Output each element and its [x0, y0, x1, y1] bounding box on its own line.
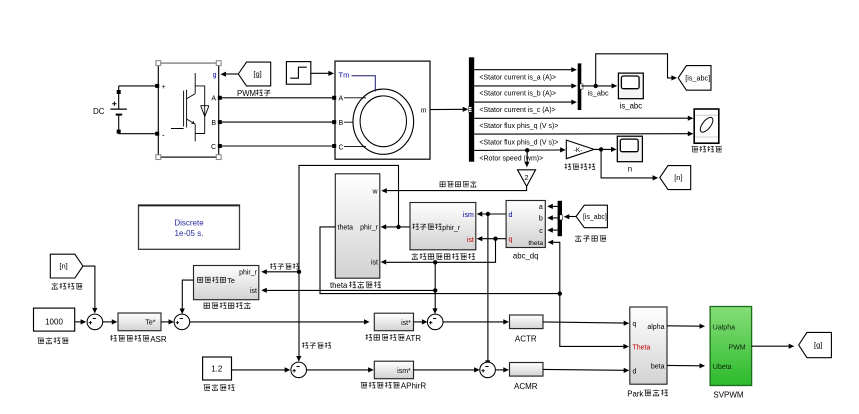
wire q to ist — [481, 238, 506, 240]
svg-text:ist: ist — [250, 288, 257, 295]
wire gain to scope n — [594, 148, 612, 150]
svg-text:-K-: -K- — [574, 147, 583, 154]
block Park inverse transform — [630, 307, 667, 384]
wire gain 2 to w input — [386, 186, 527, 190]
DC voltage source battery — [110, 86, 127, 134]
svg-text:d: d — [633, 368, 637, 375]
svg-text:1000: 1000 — [45, 318, 63, 327]
wire 1.2 to sum3 — [232, 369, 286, 371]
powergui Discrete annotation — [138, 205, 240, 249]
wire d to ism — [481, 213, 506, 215]
svg-text:SVPWM: SVPWM — [713, 391, 744, 400]
svg-text:c: c — [539, 228, 543, 235]
IGBT and diode icon inside inverter — [171, 73, 209, 141]
svg-text:<Rotor speed (wm)>: <Rotor speed (wm)> — [479, 156, 543, 163]
svg-text:C: C — [339, 144, 344, 151]
From tag [g] for gate signal — [238, 62, 270, 86]
label flux observe — [692, 146, 698, 152]
wire mux to scope is_abc — [581, 85, 612, 87]
junction theta — [558, 291, 562, 295]
Goto tag [n] — [660, 166, 691, 190]
wire ATR to sum4 — [414, 321, 424, 323]
svg-text:alpha: alpha — [647, 324, 664, 331]
constant 1000 — [34, 308, 75, 331]
svg-text:B: B — [339, 120, 344, 127]
wire ist to torque calc input — [265, 289, 435, 291]
svg-text:phir_r: phir_r — [360, 225, 379, 232]
wire sum3 to APhirR — [307, 369, 370, 371]
constant 1.2 given flux — [203, 357, 232, 380]
svg-text:ACTR: ACTR — [515, 334, 537, 343]
junction rotor flux to torque calc — [297, 270, 301, 274]
wire ASR to sum2 — [161, 321, 170, 323]
wire junction to Goto is_abc — [596, 54, 673, 86]
wire sum5 to ACMR — [495, 369, 504, 371]
XY flux scope — [694, 109, 719, 143]
svg-text:theta: theta — [338, 225, 354, 232]
label actual speed — [52, 283, 58, 289]
svg-text:theta: theta — [330, 281, 348, 290]
label given flux — [204, 385, 210, 391]
svg-text:Theta: Theta — [633, 345, 651, 352]
wire Park beta to SVPWM Ubeta — [667, 364, 701, 366]
wire From n to sum1 — [83, 266, 95, 309]
wire rotor flux to torque calc phir_r input — [265, 271, 299, 273]
block ASR speed regulator — [118, 313, 161, 331]
wire stator current is_a — [474, 69, 572, 71]
svg-text:APhirR: APhirR — [401, 382, 427, 391]
block ATR torque regulator — [374, 313, 413, 331]
wire phir_r to theta model and junction — [385, 226, 410, 228]
svg-text:Tm: Tm — [339, 71, 350, 80]
svg-text:<Stator current is_b (A)>: <Stator current is_b (A)> — [479, 91, 556, 98]
svg-text:-: - — [162, 131, 165, 140]
block APhirR flux regulator — [374, 361, 413, 379]
block theta calculation model — [335, 174, 380, 278]
svg-text:[g]: [g] — [814, 341, 822, 350]
sum3 flux error — [291, 362, 307, 378]
wire Te output to sum2 — [182, 280, 193, 310]
svg-text:phir_r: phir_r — [442, 225, 461, 232]
svg-text:B: B — [211, 120, 216, 127]
svg-text:<Stator flux phis_d (V s)>: <Stator flux phis_d (V s)> — [479, 139, 558, 146]
block ACTR — [510, 315, 544, 329]
svg-text:d: d — [509, 212, 513, 219]
wire From[g] to inverter g with arrow — [226, 73, 239, 75]
svg-text:is_abc: is_abc — [620, 102, 643, 111]
wire stator flux phis_q — [474, 117, 689, 119]
svg-text:q: q — [509, 237, 513, 244]
svg-text:PWM: PWM — [237, 89, 256, 98]
label torque calc — [204, 303, 209, 308]
wire ist branch down to sum4 — [434, 262, 436, 309]
wire phase B — [222, 121, 333, 123]
svg-text:+: + — [162, 84, 166, 91]
wire ism branch down to sum5 — [487, 214, 489, 362]
wire ist route to theta model — [385, 239, 496, 263]
wire step to motor Tm — [311, 72, 330, 74]
Goto tag [g] — [799, 332, 832, 357]
wire rotor speed to gain 2 — [526, 150, 528, 162]
svg-text:g: g — [213, 72, 217, 79]
wire sum1 to ASR — [103, 321, 113, 323]
sum2 torque node — [174, 314, 190, 330]
label stator current — [575, 235, 581, 241]
svg-text:ASR: ASR — [150, 335, 167, 344]
gain -K- speed conversion — [566, 140, 594, 159]
svg-text:2: 2 — [524, 173, 528, 182]
svg-text:ATR: ATR — [406, 334, 422, 343]
wire ACTR to Park q — [543, 322, 625, 323]
scope n — [617, 136, 642, 162]
label speed regulator ASR — [110, 335, 117, 341]
mux is_abc bar — [578, 63, 582, 110]
block SVPWM (green) — [710, 307, 752, 386]
wire junction to Goto n — [601, 149, 653, 178]
wire DC+ to inverter — [119, 85, 157, 87]
svg-text:Te*: Te* — [145, 320, 155, 327]
junction n — [599, 147, 603, 151]
svg-text:C: C — [211, 144, 216, 151]
asynchronous motor block — [332, 61, 430, 159]
svg-text:[is_abc]: [is_abc] — [583, 214, 607, 221]
svg-text:ism: ism — [463, 212, 474, 219]
wires demux to abc_dq a b c — [551, 205, 558, 207]
svg-text:Te: Te — [227, 276, 235, 285]
wire ACMR to Park d — [543, 368, 625, 371]
svg-text:ist: ist — [371, 260, 378, 267]
junction ist down — [433, 260, 437, 264]
From tag [n] actual speed — [50, 254, 83, 278]
block equivalent DC motor model (rotor flux phir_r) — [410, 203, 476, 250]
svg-text:1.2: 1.2 — [211, 365, 223, 374]
wire theta output route — [320, 227, 560, 294]
label given speed — [38, 338, 44, 344]
svg-text:ACMR: ACMR — [514, 382, 538, 391]
wire sum2 to ATR — [190, 321, 366, 323]
demux stator current bar — [558, 201, 562, 236]
junction is_abc — [594, 84, 598, 88]
junction rotor speed — [525, 148, 529, 152]
block ACMR — [510, 363, 544, 377]
label rotor flux upper — [270, 263, 276, 269]
svg-text:<Stator current is_a (A)>: <Stator current is_a (A)> — [479, 75, 556, 82]
sum5 flux comparison — [480, 362, 496, 378]
block abc_dq transform — [506, 201, 545, 248]
svg-text:beta: beta — [651, 363, 665, 370]
svg-text:Park: Park — [627, 389, 643, 398]
svg-text:A: A — [339, 96, 344, 103]
wire rotor flux route up-left-down to sum3 — [299, 165, 399, 357]
wire sum4 to ACTR — [443, 321, 505, 323]
label flux regulator APhirR — [361, 382, 367, 388]
Goto tag [is_abc] — [678, 66, 711, 91]
sum1 speed error — [87, 314, 103, 330]
svg-text:phir_r: phir_r — [239, 270, 258, 277]
svg-text:1e-05 s.: 1e-05 s. — [175, 229, 204, 238]
wire DC- to inverter — [119, 133, 157, 135]
wire theta up to abc_dq — [552, 242, 560, 293]
wire stator flux phis_d — [474, 133, 689, 135]
gain 2 triangle — [518, 170, 536, 187]
svg-text:Ubeta: Ubeta — [713, 364, 732, 371]
wire 1000 to sum1 — [75, 321, 82, 323]
step source block Tm — [286, 62, 310, 85]
label rotor flux lower — [302, 342, 308, 348]
wire theta down to Park — [560, 294, 625, 347]
svg-text:q: q — [633, 321, 637, 328]
svg-text:Discrete: Discrete — [174, 219, 204, 228]
wire APhirR to sum5 — [414, 369, 476, 371]
svg-text:[is_abc]: [is_abc] — [685, 74, 710, 83]
label electrical angular speed — [440, 182, 445, 187]
svg-text:w: w — [371, 188, 378, 195]
svg-text:a: a — [539, 204, 543, 211]
svg-text:abc_dq: abc_dq — [513, 251, 539, 260]
scope is_abc — [618, 73, 643, 99]
bus selector bar — [469, 57, 474, 161]
inverter block (universal bridge) — [155, 61, 222, 160]
block electromagnetic torque calc (flipped) — [194, 266, 259, 300]
svg-text:<Stator flux phis_q (V s)>: <Stator flux phis_q (V s)> — [479, 123, 558, 130]
wire Park alpha to SVPWM Ualpha — [667, 325, 701, 327]
wire rotor speed wm — [474, 149, 561, 151]
svg-text:ist*: ist* — [401, 320, 411, 327]
wire From is_abc to demux — [568, 216, 576, 218]
wire phase A — [222, 97, 333, 99]
svg-text:PWM: PWM — [728, 344, 745, 351]
svg-text:A: A — [211, 96, 216, 103]
svg-text:m: m — [421, 107, 427, 114]
wire stator current is_c — [474, 101, 572, 103]
wire motor m to bus selector — [430, 108, 464, 110]
From tag [is_abc] stator current — [576, 205, 607, 228]
junction q ist — [493, 237, 497, 241]
svg-text:<Stator current is_c (A)>: <Stator current is_c (A)> — [479, 107, 555, 114]
svg-text:ist: ist — [467, 237, 474, 244]
junction ist to torque calc — [433, 288, 437, 292]
label torque regulator ATR — [366, 334, 373, 340]
svg-text:DC: DC — [93, 107, 105, 116]
svg-text:n: n — [628, 164, 632, 173]
wire stator current is_b — [474, 85, 572, 87]
svg-text:[n]: [n] — [674, 173, 682, 182]
wire phase C — [222, 145, 333, 147]
svg-text:Ualpha: Ualpha — [713, 324, 735, 331]
junction d ism — [486, 212, 490, 216]
svg-text:[g]: [g] — [253, 70, 261, 79]
svg-text:b: b — [539, 216, 543, 223]
svg-text:theta: theta — [528, 240, 543, 247]
svg-text:is_abc: is_abc — [588, 88, 609, 97]
sum4 torque comparison — [427, 314, 443, 330]
label speed conversion — [565, 164, 572, 170]
label equivalent DC motor model — [412, 253, 418, 259]
wire SVPWM PWM to Goto g — [752, 345, 790, 347]
svg-text:ism*: ism* — [397, 368, 411, 375]
svg-text:[n]: [n] — [59, 262, 67, 271]
